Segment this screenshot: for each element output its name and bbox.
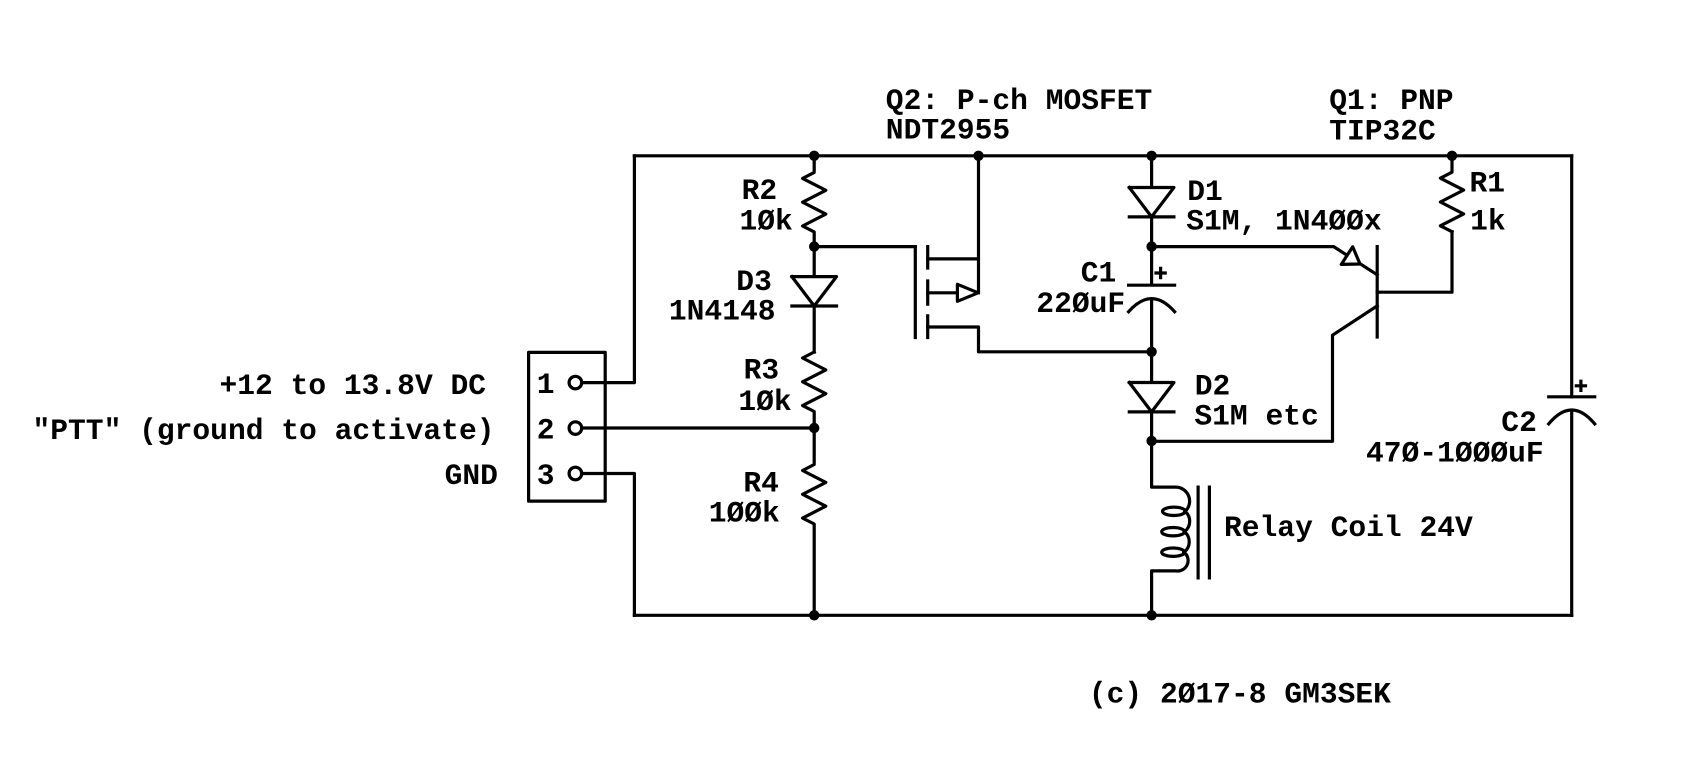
transistor Q2 drain to C1 node	[928, 327, 1152, 352]
capacitor C1 plus sign	[1156, 268, 1165, 277]
wire bottom rail ground return	[634, 614, 1571, 617]
resistor R2	[803, 156, 826, 247]
junction node C1/drain/D2	[1146, 347, 1156, 357]
junction node D1/C1/emitter	[1146, 241, 1156, 251]
svg-text:C2: C2	[1501, 406, 1537, 440]
svg-text:+12 to 13.8V DC: +12 to 13.8V DC	[220, 369, 487, 403]
svg-text:R4: R4	[743, 466, 779, 500]
svg-text:1Øk: 1Øk	[738, 385, 791, 419]
svg-text:1k: 1k	[1470, 205, 1506, 239]
connector J1 body	[529, 352, 606, 501]
junction node R3/R4/pin2	[809, 423, 819, 433]
svg-text:S1M etc: S1M etc	[1194, 399, 1318, 433]
svg-text:3: 3	[537, 459, 555, 493]
svg-text:(c) 2Ø17-8 GM3SEK: (c) 2Ø17-8 GM3SEK	[1089, 677, 1391, 711]
wire R2/D3 node to Q2 gate	[814, 245, 915, 248]
transistor Q2 P-ch MOSFET gate bar	[914, 247, 917, 338]
connector J1 pin 1 circle	[569, 376, 582, 389]
junction node rail/R1	[1447, 151, 1457, 161]
svg-text:1: 1	[537, 368, 555, 402]
capacitor C2 plus sign	[1576, 381, 1585, 390]
junction node rail/D1	[1146, 151, 1156, 161]
wire pin1 to top rail	[582, 156, 635, 383]
diode D2	[1129, 352, 1174, 441]
capacitor C1 curved plate	[1129, 299, 1175, 312]
svg-text:22ØuF: 22ØuF	[1036, 287, 1125, 321]
svg-text:1ØØk: 1ØØk	[709, 496, 780, 530]
svg-text:R2: R2	[742, 174, 778, 208]
capacitor C1 top plate	[1129, 247, 1175, 286]
svg-text:R1: R1	[1470, 167, 1506, 201]
svg-text:2: 2	[537, 413, 555, 447]
svg-text:GND: GND	[445, 459, 498, 493]
svg-text:S1M, 1N4ØØx: S1M, 1N4ØØx	[1186, 205, 1382, 239]
transistor Q2 source connection to rail	[928, 156, 979, 293]
svg-text:47Ø-1ØØØuF: 47Ø-1ØØØuF	[1366, 436, 1544, 470]
wire pin2 to R3/R4 junction	[582, 426, 815, 429]
junction node D2/collector/relay	[1146, 436, 1156, 446]
wire D1 node to Q1 emitter	[1152, 247, 1378, 275]
transistor Q1 base bar	[1376, 247, 1379, 337]
junction node relay/bottom rail	[1146, 610, 1156, 620]
svg-text:Q1: PNP: Q1: PNP	[1329, 84, 1453, 118]
resistor R1	[1440, 156, 1463, 232]
resistor R3	[803, 352, 826, 428]
svg-text:C1: C1	[1081, 257, 1117, 291]
diode D3	[792, 247, 837, 352]
svg-text:NDT2955: NDT2955	[886, 113, 1010, 147]
junction node rail/R2	[809, 151, 819, 161]
wire C1 to drain node	[1150, 300, 1153, 352]
capacitor C2 top plate	[1549, 395, 1595, 398]
transistor Q2 body arrow	[957, 284, 978, 301]
svg-text:"PTT" (ground to activate): "PTT" (ground to activate)	[33, 414, 495, 448]
transistor Q1 emitter arrow	[1341, 247, 1360, 265]
connector J1 pin 3 circle	[569, 467, 582, 480]
wire pin3 to bottom rail	[582, 474, 635, 616]
svg-text:TIP32C: TIP32C	[1329, 115, 1436, 149]
diode D1	[1129, 156, 1174, 247]
resistor R4	[803, 428, 826, 615]
junction node R2/D3/gate	[809, 241, 819, 251]
relay core lines	[1198, 487, 1209, 578]
transistor Q2 channel segments	[926, 247, 929, 338]
transistor Q1 collector to D2 node	[1152, 306, 1378, 441]
junction node rail/Q2 source	[973, 151, 983, 161]
svg-text:D2: D2	[1195, 369, 1231, 403]
svg-text:R3: R3	[744, 354, 780, 388]
svg-text:1N4148: 1N4148	[669, 295, 776, 329]
connector J1 pin 2 circle	[569, 422, 582, 435]
capacitor C2 curved plate	[1549, 410, 1595, 424]
svg-text:1Øk: 1Øk	[740, 205, 793, 239]
wire C2 to bottom rail	[1570, 411, 1573, 616]
svg-text:Relay Coil 24V: Relay Coil 24V	[1224, 511, 1473, 545]
transistor Q2 body arrow feed	[928, 291, 958, 294]
transistor Q1 base to R1	[1377, 232, 1452, 293]
junction node R4/bottom rail	[809, 610, 819, 620]
capacitor C2 top wire	[1570, 156, 1573, 397]
wire top rail +12V	[634, 154, 1571, 157]
relay coil L1	[1152, 441, 1190, 511]
